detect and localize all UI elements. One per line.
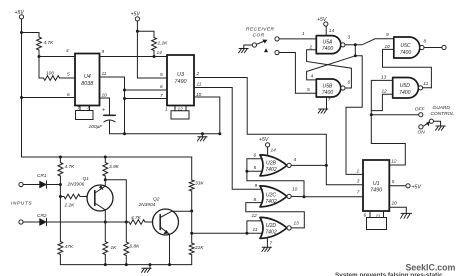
svg-text:7402: 7402 [265, 199, 276, 205]
svg-text:3.9K: 3.9K [109, 164, 120, 170]
ref label Q2 [153, 197, 160, 203]
nor gate U2B 7402 [260, 155, 291, 176]
pin label 13 (U2D) [294, 221, 300, 227]
svg-text:7: 7 [357, 190, 360, 196]
svg-text:U5D: U5D [400, 83, 411, 89]
wire COR lower contact to U5B pin 5 [279, 53, 316, 94]
ground (guard) [434, 121, 446, 130]
pin label 4 (U2B) [294, 157, 297, 163]
power +5V terminal (second, top middle) [131, 12, 141, 22]
resistor 2.2K pullup [152, 38, 157, 57]
value label 2.2K [64, 203, 76, 209]
junction Q1 collector on CR2 line [104, 221, 107, 224]
svg-text:4.7K: 4.7K [44, 40, 55, 46]
caption (clipped) [335, 272, 443, 276]
junction 2.2K on U4.9-U3.14 line [153, 55, 156, 58]
junction +5V to 2.2K [136, 30, 139, 33]
switch guard OFF contact [419, 113, 423, 117]
ground (COR common) [239, 45, 253, 53]
IC label U5B 7400 [322, 84, 333, 96]
junction left rail to U4 pin 6 [20, 96, 23, 99]
wire to U4 pin 4 [39, 56, 75, 58]
svg-text:6.8K: 6.8K [130, 244, 141, 250]
svg-text:22K: 22K [194, 245, 204, 251]
svg-text:14: 14 [271, 148, 277, 154]
svg-text:12: 12 [382, 89, 388, 95]
pin label 5 (U1) [392, 179, 395, 185]
svg-text:100: 100 [46, 71, 54, 77]
svg-text:11: 11 [197, 82, 202, 88]
svg-text:+5V: +5V [412, 184, 422, 190]
svg-text:Q2: Q2 [153, 197, 160, 203]
pin label 11 (U2D) [253, 227, 258, 233]
pin label 4 (U4) [66, 48, 69, 54]
counter IC U3 7490 box [167, 55, 194, 106]
IC label U5A 7400 [322, 40, 333, 52]
pin label 7 (U2D) [270, 241, 273, 247]
resistor 2.2K (Q1 base) [60, 194, 87, 199]
svg-text:7490: 7490 [370, 187, 382, 193]
wire U2B output to riser [291, 164, 326, 166]
wire to U3 pin 6 [125, 89, 168, 91]
svg-text:COR: COR [253, 33, 265, 39]
svg-text:OFF: OFF [415, 106, 426, 112]
svg-text:4: 4 [311, 74, 314, 80]
svg-text:U2B: U2B [266, 160, 277, 166]
value label 4.7K [44, 40, 55, 46]
wire U4 pin 11 down to ground line [100, 77, 125, 134]
pin label 10 (U2C) [292, 187, 298, 193]
power +5V terminal (top left) [15, 10, 25, 19]
wire U4 pin 9 to U3 pin 14 [100, 56, 168, 58]
junction ground symbol stub [201, 132, 204, 135]
wire +5V left vertical and bottom +5V rail [22, 19, 192, 157]
junction U3 pin7 branch [123, 97, 126, 100]
junction U5A output node [354, 43, 357, 46]
pin label 2 (U3) [196, 71, 200, 77]
capacitor 100uF [102, 107, 115, 134]
svg-text:7: 7 [77, 106, 80, 112]
pin label 7 (U1) [357, 190, 360, 196]
value label 100 [46, 71, 54, 77]
pin label 11 (U1) [376, 213, 381, 219]
svg-text:6: 6 [67, 92, 70, 98]
input terminal 2 [19, 220, 23, 224]
junction Q2 emitter on rail [168, 263, 171, 266]
pin label 5 (U4) [67, 72, 70, 78]
svg-text:+5V: +5V [131, 12, 141, 18]
ground (below U4/U3 line) [197, 134, 207, 141]
resistor 6.8K [124, 222, 129, 265]
svg-text:U5A: U5A [323, 40, 334, 46]
svg-text:4: 4 [66, 48, 69, 54]
svg-text:2.2K: 2.2K [157, 41, 169, 47]
label ON [418, 130, 426, 136]
pin label 5 (U5B) [307, 87, 310, 93]
svg-text:5: 5 [254, 165, 257, 171]
U4 pins 7-8 stub box [76, 106, 94, 120]
IC label U2C 7402 [265, 192, 276, 205]
wire U5D pin 12 tie [371, 94, 392, 110]
input terminal 1 [19, 182, 23, 186]
pin label 11 (U4) [102, 71, 107, 77]
wire U3 pin 2 to U2B output node [194, 78, 363, 185]
svg-text:CR2: CR2 [37, 213, 47, 219]
svg-text:CONTROL: CONTROL [431, 111, 455, 117]
svg-text:7400: 7400 [399, 90, 410, 96]
pin label 6 (U4) [67, 92, 70, 98]
pin label 14 (U3) [157, 50, 163, 56]
ground (U1 pin 10) [401, 213, 412, 218]
junction U2B pins 5-6 tie [245, 170, 248, 173]
svg-text:10: 10 [196, 92, 202, 98]
ref label CR2 [37, 213, 47, 219]
svg-text:47K: 47K [65, 244, 74, 250]
watermark SeekIC.com [406, 263, 456, 273]
svg-text:4.7K: 4.7K [131, 215, 142, 221]
IC label U4 8038 [81, 74, 93, 87]
pin label 10 (U4) [102, 93, 108, 99]
svg-text:7490: 7490 [175, 79, 187, 85]
switch COR arm [256, 40, 266, 45]
svg-text:4.7K: 4.7K [65, 164, 76, 170]
resistor 33K [189, 157, 194, 211]
svg-text:5: 5 [307, 87, 310, 93]
svg-text:2: 2 [196, 71, 200, 77]
svg-text:1: 1 [357, 169, 360, 175]
wire CR1 node down through 47K to rail [58, 185, 63, 265]
svg-text:U3: U3 [177, 72, 184, 78]
wire U5C pin 10 from U5D output [383, 49, 432, 88]
svg-text:U2D: U2D [266, 223, 277, 229]
wire Q1 collector down [104, 210, 106, 222]
wire input2 to CR2 [23, 221, 39, 223]
IC label U2D 7402 [265, 223, 276, 235]
svg-text:4: 4 [294, 157, 297, 163]
wire input1 to CR1 [23, 184, 39, 186]
junction guard line [370, 113, 373, 116]
wire U2C output to U1 pin 7 [291, 195, 363, 197]
pin label 9 (U4) [102, 49, 105, 55]
wire to U4 pin 6 [22, 97, 76, 99]
svg-text:+: + [102, 107, 105, 113]
wire to resistor 4.7K pullup [22, 33, 40, 38]
svg-text:100µF: 100µF [89, 124, 104, 130]
wire U5A output to U5C pin 9 [345, 39, 393, 45]
label RECEIVER COR [246, 27, 275, 39]
pin label 5 (U3) [160, 72, 163, 78]
junction 1K on rail [104, 263, 107, 266]
svg-text:10: 10 [292, 187, 298, 193]
wire U3 pin 10 to ground line [194, 97, 220, 134]
label GUARD CONTROL [431, 105, 455, 117]
svg-text:U2C: U2C [266, 192, 277, 198]
junction 2.2K branch [59, 195, 62, 198]
svg-text:9: 9 [255, 183, 258, 189]
wire to U3 pin 7 [125, 98, 168, 100]
svg-text:3: 3 [357, 178, 360, 184]
value label 4.7K [65, 164, 76, 170]
junction 6.8K on rail [125, 263, 128, 266]
svg-text:6: 6 [160, 84, 163, 90]
svg-text:7: 7 [160, 93, 163, 99]
svg-text:8: 8 [424, 39, 427, 45]
wire Q2 emitter to rail [169, 234, 171, 264]
resistor 4.7K (Q2 base) [129, 220, 153, 225]
output terminal (U5C pin 8) [442, 45, 446, 49]
power +5V terminal (U1 pin 5) [406, 184, 422, 191]
transistor Q1 2N3906 [87, 185, 113, 211]
svg-text:ON: ON [418, 130, 426, 136]
pin label 6 (U5B) [348, 80, 351, 86]
wire bottom ground rail [60, 264, 191, 266]
junction at 33K/22K vertical [190, 232, 193, 235]
svg-text:CR1: CR1 [37, 173, 47, 179]
svg-text:3: 3 [348, 35, 351, 41]
svg-text:10: 10 [385, 44, 391, 50]
svg-text:12: 12 [178, 107, 184, 113]
value label 22K [194, 245, 204, 251]
power +5V terminal (U5 pin 14) [317, 17, 328, 36]
pin label 10 (U5C) [385, 44, 391, 50]
nor gate U2C 7402 [260, 186, 291, 207]
part label 2N3906 [67, 182, 85, 188]
wire Q2 collector to U2D inputs [192, 232, 262, 234]
IC label U5C 7400 [400, 43, 411, 56]
pin label 1 (U3) [165, 107, 168, 113]
pin label 12 (U3) [178, 107, 184, 113]
svg-text:5: 5 [160, 72, 163, 78]
value label 2.2K [157, 41, 169, 47]
pin label 4 (U5B) [311, 74, 314, 80]
svg-text:7400: 7400 [322, 46, 333, 52]
wire U5B output stub [345, 87, 351, 89]
wire emitter node to 6.8K node [105, 180, 126, 222]
svg-text:7402: 7402 [265, 167, 276, 173]
label OFF [415, 106, 426, 112]
junction CR1 node [59, 183, 62, 186]
IC label U2B 7402 [265, 160, 276, 173]
resistor 22K [189, 211, 194, 265]
pin label 10 (U3) [196, 92, 202, 98]
svg-text:Q1: Q1 [83, 176, 90, 182]
wire CR1 to junction [47, 184, 61, 186]
wire to resistor 2.2K [137, 31, 154, 37]
pin label 10 (U1) [392, 200, 398, 206]
IC label U1 7490 [370, 181, 382, 194]
pin label 8 (U4) [88, 106, 91, 112]
wire guard OFF line [371, 114, 418, 116]
switch COR upper contact [275, 37, 279, 41]
pin label 9 (U2C) [255, 183, 258, 189]
ground (bottom rail) [142, 265, 152, 273]
wire U5A pin 2 feedback from U5B output [307, 50, 352, 88]
svg-text:6: 6 [254, 153, 257, 159]
svg-text:2N3904: 2N3904 [138, 202, 156, 208]
wire Q1 emitter to 3.9K node [104, 180, 106, 186]
wire U5A output feedback to U5B pin 4 [307, 45, 356, 80]
wire U5C output to terminal [424, 47, 442, 49]
svg-text:11: 11 [423, 81, 428, 87]
value label 1K [111, 245, 118, 251]
wire U3 pin 11 to U2C pin 9 [194, 88, 263, 190]
counter IC U1 7490 box [363, 160, 389, 211]
wire U5D pin 13 to U1 pin 12 [371, 80, 405, 165]
junction U2C output riser [303, 195, 306, 198]
svg-text:2.2K: 2.2K [64, 203, 76, 209]
junction U2B output node [325, 164, 328, 167]
label INPUTS [11, 201, 32, 207]
svg-text:8: 8 [88, 106, 91, 112]
nand gate U5A 7400 [316, 36, 345, 54]
wire branch to U2D pin 12 [247, 221, 262, 233]
svg-text:1: 1 [302, 31, 305, 37]
pin label 6 (U2B) [254, 153, 257, 159]
svg-text:9: 9 [386, 32, 389, 38]
pin label 2 (U5A) [309, 45, 313, 51]
junction +5V branch to 4.7K [20, 31, 23, 34]
svg-text:13: 13 [381, 75, 387, 81]
value label 33K [195, 181, 204, 187]
U1 pins 6-11 stub box [367, 211, 387, 230]
pin label 7 (U3) [160, 93, 163, 99]
wire U2C pin 8 from U2D output [246, 203, 304, 228]
junction Q2 collector node [190, 210, 193, 213]
ref label CR1 [37, 173, 47, 179]
svg-text:6: 6 [348, 80, 351, 86]
junction 4.7K / pin4 / 100 ohm [38, 55, 41, 58]
junction ground stub on rail [149, 263, 152, 266]
svg-text:11: 11 [253, 227, 258, 233]
wire CR2 line to Q2 base resistor [47, 221, 129, 223]
nor gate U2D 7402 [260, 217, 291, 238]
part label 2N3904 [138, 202, 156, 208]
junction feedback branch [354, 54, 357, 57]
junction U4 pin11 net on ground line [123, 132, 126, 135]
U3 pins 1-12 stub box [171, 106, 189, 120]
wire U4 pin 10 to capacitor [100, 98, 110, 115]
junction U3 pin6 branch [123, 89, 126, 92]
resistor 1K (Q1 collector load) [103, 222, 108, 265]
svg-text:6: 6 [364, 213, 367, 219]
wire COR upper contact to U5A pin 1 [279, 38, 316, 40]
power +5V terminal (U2 pin 14) [259, 137, 270, 155]
svg-text:2N3906: 2N3906 [67, 182, 85, 188]
pin label 13 (U5D) [381, 75, 387, 81]
nand gate U5B 7400 [316, 79, 345, 97]
wire Q2 collector to 33K node [172, 210, 192, 212]
transistor Q2 2N3904 [153, 209, 179, 235]
svg-text:1K: 1K [111, 245, 118, 251]
svg-text:10: 10 [102, 93, 108, 99]
switch guard arm [424, 122, 430, 126]
resistor 3.9K (Q1 pullup) [103, 156, 108, 180]
value label 6.8K [130, 244, 141, 250]
ref label Q1 [83, 176, 90, 182]
svg-text:U5B: U5B [323, 84, 334, 90]
svg-text:1: 1 [165, 107, 168, 113]
pin label 7 (U4) [77, 106, 80, 112]
wire ground line below U4 [110, 133, 220, 135]
svg-text:11: 11 [376, 213, 381, 219]
resistor 100 (U4 pin 5) [44, 76, 76, 81]
svg-text:5: 5 [67, 72, 70, 78]
svg-text:14: 14 [329, 28, 335, 34]
pin label 11 (U3) [197, 82, 202, 88]
pin label 7 (U5B) [328, 97, 331, 103]
pin label 12 (U2D) [252, 213, 258, 219]
svg-text:7400: 7400 [400, 50, 411, 56]
junction Q1 emitter node [104, 178, 107, 181]
pin label 5 (U2B) [254, 165, 257, 171]
switch COR lower contact marker [264, 49, 267, 52]
svg-text:System prevents falsing pres-s: System prevents falsing pres-static [335, 272, 443, 276]
junction 6.8K node [125, 221, 128, 224]
pin label 14 (U5A) [329, 28, 335, 34]
wire U1 pin 5 to +5V terminal [389, 185, 406, 187]
switch guard arm pivot [429, 119, 433, 123]
svg-text:11: 11 [102, 71, 107, 77]
svg-text:14: 14 [157, 50, 163, 56]
svg-text:7: 7 [328, 97, 331, 103]
svg-text:10: 10 [392, 200, 398, 206]
pin label 14 (U2) [271, 148, 277, 154]
svg-text:8038: 8038 [81, 81, 93, 87]
svg-text:33K: 33K [195, 181, 204, 187]
svg-text:U5C: U5C [400, 43, 411, 49]
switch COR common pole [252, 43, 256, 47]
svg-text:9: 9 [102, 49, 105, 55]
wire down to 100 ohm [39, 57, 44, 79]
wire U5D output stub [423, 87, 432, 89]
nand gate U5D 7400 [393, 78, 423, 99]
svg-text:U4: U4 [84, 74, 91, 80]
junction U3 pin10 net on ground line [218, 132, 221, 135]
svg-text:GUARD: GUARD [433, 105, 451, 111]
pin label 6 (U3) [160, 84, 163, 90]
resistor 4.7K (U4 pin 4 pullup) [37, 37, 42, 57]
wire +5V down to U3 pin 5 [137, 21, 167, 78]
value label 47K [65, 244, 74, 250]
svg-text:13: 13 [294, 221, 300, 227]
value label 100uF [89, 124, 104, 130]
IC label U5D 7400 [399, 83, 410, 96]
IC label U3 7490 [175, 72, 187, 85]
pin label 8 (U5C) [424, 39, 427, 45]
value label 4.7K [131, 215, 142, 221]
wire U2D output corner [291, 227, 304, 229]
junction U2D pin12 branch [245, 232, 248, 235]
switch COR lower contact [275, 50, 279, 54]
pin label 12 (U1) [391, 158, 397, 164]
resistor 4.7K (CR1 pullup) [58, 156, 63, 185]
svg-text:INPUTS: INPUTS [11, 201, 32, 207]
pin label 1 (U5A) [302, 31, 305, 37]
op IC U4 8038 box [75, 54, 100, 106]
pin label 1 (U1) [357, 169, 360, 175]
pin label 8 (U2C) [254, 197, 257, 203]
diode CR2 [40, 218, 47, 225]
ground stub U5 pin 7 [318, 97, 328, 113]
svg-text:12: 12 [391, 158, 397, 164]
pin label 3 (U5A) [348, 35, 351, 41]
svg-text:7: 7 [270, 241, 273, 247]
pin label 11 (U5D) [423, 81, 428, 87]
svg-text:7402: 7402 [265, 229, 276, 235]
wire U5A output reset line to U1 pin 1 [346, 56, 363, 175]
svg-text:7400: 7400 [322, 90, 333, 96]
value label 3.9K [109, 164, 120, 170]
